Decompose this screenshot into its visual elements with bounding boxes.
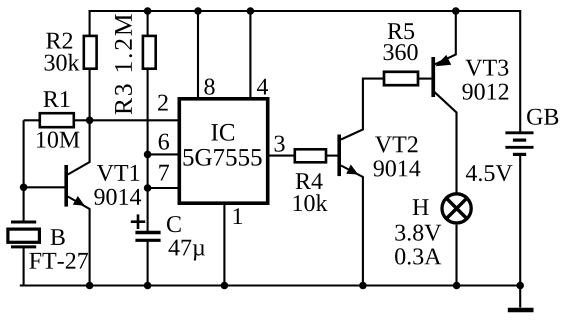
- label 9012: [462, 84, 508, 100]
- wire R3 top lead: [147, 11, 149, 37]
- wire IC pin 7: [148, 187, 178, 189]
- wire VT3 emitter from top rail: [435, 11, 456, 64]
- resistor R1 body: [40, 113, 74, 127]
- wire VT1 collector: [68, 120, 90, 174]
- wire VT1 emitter: [68, 197, 90, 286]
- battery GB short plate 1: [513, 139, 526, 142]
- wire right edge to battery plus: [519, 10, 521, 132]
- node dot bottom rail at pin 1: [221, 282, 229, 290]
- lamp H circle: [442, 194, 471, 223]
- label 9014 (VT1): [94, 189, 141, 205]
- resistor R2 body: [84, 36, 97, 69]
- label 10k: [294, 194, 328, 211]
- label pin 1: [234, 208, 243, 224]
- resistor R4 body: [295, 149, 326, 162]
- wire VT1 base: [24, 186, 65, 188]
- node dot pin 6: [144, 151, 152, 159]
- lamp H cross: [447, 198, 467, 218]
- wire VT3 collector to lamp: [434, 92, 456, 193]
- wire B bottom lead: [23, 247, 25, 286]
- label B: [51, 229, 65, 245]
- label R4: [296, 173, 323, 189]
- node dot top rail at pin 8: [194, 7, 202, 15]
- label 0.3A: [395, 248, 441, 264]
- label IC: [211, 124, 234, 141]
- wire R5 to VT3 base: [419, 78, 433, 80]
- label VT1: [97, 165, 139, 181]
- wire IC pin 3 to R4: [270, 155, 295, 157]
- node dot bottom rail at VT2 emitter: [359, 282, 367, 290]
- label R3 1.2M (rotated): [115, 14, 132, 114]
- wire top rail: [89, 10, 521, 12]
- resistor R5 body: [384, 72, 418, 85]
- wire IC pin 1: [223, 204, 225, 286]
- label R2: [46, 33, 72, 49]
- label R1: [44, 91, 70, 107]
- label 47u: [169, 240, 206, 261]
- node dot R1 R2 VT1 collector: [86, 117, 94, 125]
- piezo sounder B top plate: [11, 221, 36, 224]
- label GB: [527, 109, 558, 125]
- wire lamp to bottom rail: [455, 225, 457, 286]
- transistor VT1 emitter arrow: [73, 196, 85, 206]
- label R5: [388, 23, 414, 39]
- piezo sounder B crystal box: [8, 229, 40, 242]
- node dot bottom rail at lamp: [453, 282, 461, 290]
- capacitor C polarity plus sign: [131, 214, 145, 229]
- wire C bottom lead: [147, 241, 149, 286]
- capacitor C top plate: [135, 231, 160, 234]
- piezo sounder B bottom plate: [11, 245, 36, 248]
- label pin 8: [204, 79, 214, 95]
- label pin 6: [159, 134, 169, 150]
- node dot pin 7: [144, 184, 152, 192]
- wire R2 top lead: [89, 10, 91, 37]
- wire battery minus to bottom rail: [519, 156, 521, 286]
- wire R3 bottom lead through pins 6,7 to C: [147, 69, 149, 232]
- battery GB long plate 1: [505, 131, 533, 134]
- label C: [167, 216, 181, 232]
- transistor VT3 base bar: [431, 57, 435, 97]
- ground: [508, 308, 534, 312]
- transistor VT2 emitter arrow: [346, 165, 358, 175]
- label VT3: [466, 60, 509, 76]
- label H: [413, 199, 429, 215]
- wire VT2 emitter: [341, 166, 363, 286]
- label 3.8V: [395, 225, 441, 241]
- node dot top rail at VT3 emitter: [452, 7, 460, 15]
- IC 5G7555 box: [179, 99, 267, 203]
- wire IC pin 8: [197, 11, 199, 98]
- wire bottom rail: [20, 284, 520, 286]
- label pin 3: [275, 136, 285, 152]
- wire IC pin 4: [249, 11, 251, 98]
- label 5G7555: [184, 149, 262, 166]
- node dot bottom rail at ground: [516, 282, 524, 290]
- wire left vertical to B: [23, 120, 25, 222]
- transistor VT2 base bar: [337, 135, 341, 177]
- transistor VT1 base bar: [64, 165, 68, 207]
- label 10M: [37, 132, 80, 148]
- transistor VT3 emitter arrow: [435, 55, 451, 66]
- label 9014 (VT2): [374, 160, 421, 176]
- label 30k: [45, 54, 80, 71]
- label pin 7: [159, 165, 169, 181]
- label 4.5V: [466, 165, 513, 181]
- node dot bottom rail at C: [144, 282, 152, 290]
- node dot top rail at R3: [144, 7, 152, 15]
- resistor R3 body: [143, 36, 156, 69]
- wire R1 row to IC pin 2: [24, 119, 178, 121]
- wire IC pin 6: [148, 153, 178, 155]
- capacitor C bottom plate: [135, 239, 160, 242]
- label FT-27: [29, 253, 88, 269]
- node dot top rail at pin 4: [247, 7, 255, 15]
- label 360: [384, 44, 418, 60]
- battery GB long plate 2: [505, 146, 533, 149]
- label VT2: [375, 136, 417, 152]
- wire R4 to VT2 base: [326, 155, 338, 157]
- battery GB short plate 2: [513, 153, 526, 156]
- node dot left branch at VT1 base: [20, 184, 28, 192]
- wire VT2 collector to R5: [341, 79, 384, 140]
- label pin 2: [158, 95, 168, 111]
- node dot bottom rail at VT1 emitter: [86, 282, 94, 290]
- label pin 4: [257, 79, 268, 95]
- wire ground stub: [519, 286, 521, 308]
- wire R2 bottom lead: [89, 69, 91, 121]
